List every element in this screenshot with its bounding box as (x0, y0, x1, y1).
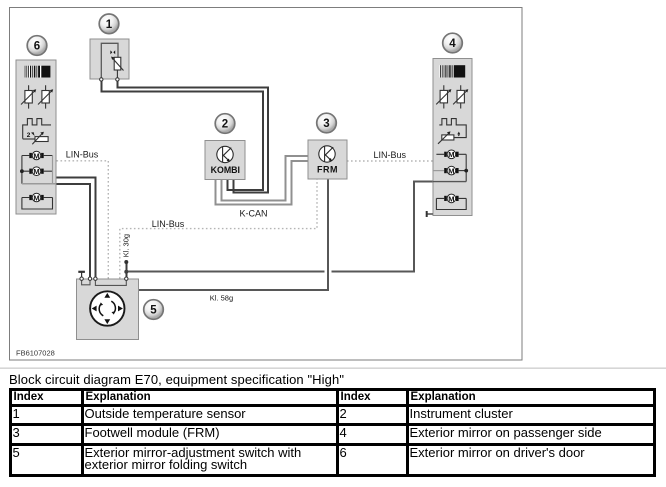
wire D2: temp sensor right terminal to KOMBI (outer loop) (117, 81, 268, 193)
motor M3 (mirror fold) (22, 193, 53, 209)
svg-text:M: M (448, 194, 454, 203)
svg-text:Kl. 30g: Kl. 30g (122, 234, 131, 257)
index ball 3 (317, 113, 337, 133)
arrow up (104, 293, 110, 298)
motor M2 (mirror horizontal) (22, 167, 53, 176)
index ball 5 (144, 300, 164, 320)
svg-text:K-CAN: K-CAN (240, 208, 268, 218)
wire LIN-Bus L1: module 6 to switch 5 (dotted) (57, 161, 109, 279)
rotate arrow left arc (99, 304, 103, 316)
wire module 4 supply: Kl.30g junction to module 4 (with hop gap at Kl.58g crossing) (126, 271, 324, 273)
horizontal separator rule under diagram (0, 367, 666, 369)
thermistor R1 (mirror heating) (21, 85, 36, 108)
junction Kl.30g / module 4 wire (124, 270, 128, 274)
wire LIN-Bus L3: FRM to module 4 (dotted) (347, 160, 433, 162)
wire right link (internal, gray) (52, 156, 54, 184)
switch S5: mirror adjustment switch box (77, 279, 139, 340)
control unit U3: FRM footwell module (308, 140, 347, 179)
svg-text:LIN-Bus: LIN-Bus (66, 150, 99, 160)
heater barcode symbol (439, 65, 465, 77)
motor M4 (436, 150, 466, 159)
FRM ECU symbol (319, 146, 335, 162)
wire K-CAN 1: KOMBI to FRM (outer) (216, 161, 309, 205)
svg-text:5: 5 (150, 305, 157, 317)
internal bus bar (gray) (22, 183, 56, 185)
wire Kl.30g stub with terminal dot (125, 262, 127, 278)
svg-text:2: 2 (222, 119, 228, 131)
svg-text:FB6107028: FB6107028 (16, 349, 55, 358)
KOMBI ECU symbol (217, 146, 233, 162)
pin terminal right (116, 78, 119, 81)
motor M5 (434, 166, 467, 175)
svg-text:M: M (33, 193, 39, 202)
junction dot motors left (20, 169, 24, 173)
pin terminal T1 (80, 277, 83, 280)
label 2 marks (457, 132, 460, 137)
arrow left (92, 306, 97, 312)
index ball 1 (99, 14, 119, 34)
svg-text:1: 1 (106, 19, 113, 31)
pin terminal T4 (125, 277, 128, 280)
sensor U1: outside temperature sensor box (90, 39, 129, 81)
wire LIN-Bus L2: switch 5 to FRM (dotted) (120, 179, 317, 279)
heater barcode symbol (24, 66, 50, 78)
terminal 31 symbol above switch (78, 271, 85, 277)
wire K-CAN 2: KOMBI to FRM (inner) (222, 156, 309, 201)
wire Kl.58g: switch 5 to FRM bottom (138, 179, 328, 290)
thermistor body (114, 57, 121, 70)
variable resistor R3 (positioning) (23, 132, 48, 145)
rotate arrow right arc (111, 301, 115, 313)
pin terminal left (100, 78, 103, 81)
junction dot motors right (464, 169, 468, 173)
sensor inner housing (101, 43, 118, 79)
legend table (9, 388, 656, 477)
caption (9, 372, 344, 387)
svg-text:3: 3 (323, 118, 329, 130)
pin terminal T2 (88, 277, 91, 280)
module A6: exterior mirror driver's door box (16, 60, 56, 214)
arrow down (104, 319, 110, 324)
index ball 2 (215, 114, 235, 134)
diagram frame (10, 8, 523, 361)
svg-text:M: M (33, 167, 39, 176)
index ball 6 (27, 36, 47, 56)
svg-text:4: 4 (449, 38, 456, 50)
sensor vent marks (110, 50, 115, 54)
wire right link motors (465, 154, 467, 181)
variable resistor R6 (438, 131, 454, 143)
motor M6 (mirror fold) (436, 194, 466, 209)
wire module 6 to switch 5 (outer) (56, 178, 95, 278)
module A4: exterior mirror passenger side box (426, 59, 472, 217)
svg-text:KOMBI: KOMBI (211, 165, 240, 175)
internal bracket T3-T4 (95, 281, 126, 286)
internal bus bar (433, 181, 466, 183)
thermistor R4 (436, 85, 451, 108)
switch rosette circle (90, 291, 124, 325)
svg-text:M: M (33, 151, 39, 160)
wire module 6 to switch 5 (inner) (56, 184, 90, 277)
internal bracket T1-T2 (82, 281, 90, 285)
svg-text:M: M (448, 150, 454, 159)
svg-text:LIN-Bus: LIN-Bus (374, 150, 407, 160)
thermistor R2 (38, 85, 53, 108)
svg-text:Kl. 58g: Kl. 58g (210, 293, 233, 302)
svg-text:LIN-Bus: LIN-Bus (152, 219, 185, 229)
svg-text:M: M (448, 167, 454, 176)
PWM signal symbol (439, 119, 466, 138)
terminal stub at module 4 bottom (427, 213, 433, 215)
svg-text:FRM: FRM (317, 165, 338, 175)
arrow right (118, 306, 123, 312)
motor M1 (mirror vertical) (22, 151, 53, 160)
wire left link motors (21, 156, 23, 184)
thermistor arrow (112, 58, 123, 71)
wire D1: temp sensor left terminal to KOMBI (inner loop) (101, 81, 263, 190)
svg-text:2: 2 (27, 132, 31, 139)
index ball 4 (443, 33, 463, 53)
svg-text:6: 6 (34, 41, 40, 53)
PWM signal symbol (23, 119, 51, 139)
control unit U2: KOMBI instrument cluster (205, 141, 245, 180)
thermistor R5 (453, 85, 468, 108)
pin terminal T3 (94, 277, 97, 280)
